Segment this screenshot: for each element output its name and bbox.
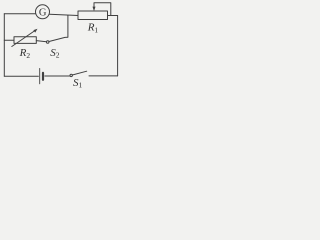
svg-text:G: G — [39, 8, 47, 19]
